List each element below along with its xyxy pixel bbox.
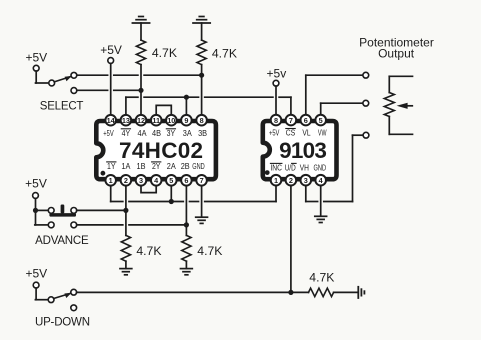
svg-text:7: 7 — [200, 176, 204, 185]
svg-text:SELECT: SELECT — [40, 100, 84, 112]
svg-text:GND: GND — [192, 162, 205, 171]
svg-text:4B: 4B — [152, 129, 161, 138]
svg-text:1A: 1A — [121, 162, 131, 171]
svg-text:9103: 9103 — [279, 138, 326, 163]
svg-text:14: 14 — [107, 116, 116, 125]
svg-text:3: 3 — [139, 176, 143, 185]
svg-text:Output: Output — [378, 47, 415, 61]
svg-text:10: 10 — [167, 116, 175, 125]
svg-text:2A: 2A — [167, 162, 177, 171]
svg-text:+5V: +5V — [25, 50, 47, 64]
svg-text:+5V: +5V — [103, 129, 114, 138]
svg-text:2B: 2B — [181, 162, 190, 171]
svg-text:74HC02: 74HC02 — [119, 138, 203, 163]
svg-text:2Y: 2Y — [152, 162, 161, 171]
svg-text:VW: VW — [318, 129, 327, 138]
svg-text:+5v: +5v — [267, 67, 287, 81]
svg-text:4.7K: 4.7K — [309, 270, 334, 284]
svg-text:11: 11 — [152, 116, 160, 125]
svg-text:3: 3 — [304, 176, 308, 185]
svg-text:2: 2 — [124, 176, 128, 185]
svg-text:4.7K: 4.7K — [212, 47, 237, 61]
svg-text:CS: CS — [286, 129, 296, 138]
svg-text:1: 1 — [109, 176, 113, 185]
svg-text:5: 5 — [169, 176, 173, 185]
svg-text:+5V: +5V — [25, 177, 47, 191]
svg-text:8: 8 — [274, 116, 278, 125]
svg-text:+5V: +5V — [269, 129, 280, 138]
svg-text:1B: 1B — [137, 162, 146, 171]
svg-text:4.7K: 4.7K — [197, 244, 222, 258]
svg-text:UP-DOWN: UP-DOWN — [35, 316, 90, 328]
svg-text:3A: 3A — [183, 129, 193, 138]
svg-text:4.7K: 4.7K — [136, 244, 161, 258]
svg-text:ADVANCE: ADVANCE — [35, 235, 89, 247]
svg-text:4A: 4A — [138, 129, 148, 138]
svg-text:+5V: +5V — [100, 43, 122, 57]
svg-text:3Y: 3Y — [167, 129, 176, 138]
svg-text:1: 1 — [274, 176, 278, 185]
svg-text:U/D: U/D — [285, 163, 296, 172]
svg-text:6: 6 — [304, 116, 308, 125]
svg-text:1Y: 1Y — [107, 162, 116, 171]
svg-text:VH: VH — [300, 163, 309, 172]
svg-text:INC: INC — [270, 163, 282, 172]
svg-text:5: 5 — [319, 116, 323, 125]
svg-text:4.7K: 4.7K — [152, 46, 177, 60]
svg-text:12: 12 — [137, 116, 145, 125]
svg-text:6: 6 — [184, 176, 188, 185]
svg-text:13: 13 — [122, 116, 130, 125]
svg-text:7: 7 — [289, 116, 293, 125]
svg-text:2: 2 — [289, 176, 293, 185]
svg-text:4Y: 4Y — [122, 129, 131, 138]
svg-text:GND: GND — [314, 163, 327, 172]
svg-text:9: 9 — [184, 116, 188, 125]
svg-text:8: 8 — [200, 116, 204, 125]
svg-text:+5V: +5V — [25, 266, 47, 280]
svg-text:VL: VL — [302, 129, 311, 138]
svg-text:3B: 3B — [198, 129, 207, 138]
